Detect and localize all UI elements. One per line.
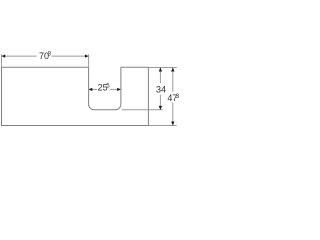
arrow bottom of 47.3 dimension: [171, 122, 174, 126]
dimension line 25.5 left segment: [89, 88, 98, 90]
extension line bottom right for 47.3 dimension: [148, 125, 176, 127]
dimension line 70.8 right segment: [52, 55, 89, 57]
svg-text:5: 5: [106, 83, 110, 90]
arrow top of 47.3 dimension: [171, 68, 174, 72]
dimension line 47.3 upper segment: [172, 68, 174, 92]
extension line at countertop left edge for 70.8 dimension: [1, 54, 3, 67]
dimension line 34 upper segment: [159, 68, 161, 84]
extension line top right for 34 and 47.3 dimensions: [148, 67, 176, 69]
arrow left of 70.8 dimension: [2, 54, 6, 57]
svg-text:3: 3: [176, 93, 180, 100]
dimension line 34 lower segment: [159, 95, 161, 110]
arrow right of 70.8 dimension: [85, 54, 89, 57]
extension line at cutout left edge for 70.8 dimension: [88, 54, 90, 67]
dimension line 47.3 lower segment: [172, 102, 174, 125]
countertop outline with basin cutout notch: [2, 67, 149, 125]
extension line at cutout bottom for 34 dimension: [122, 109, 163, 111]
dimension line 25.5 right segment: [110, 88, 121, 90]
dimension line 70.8 left segment: [2, 55, 37, 57]
svg-text:8: 8: [48, 50, 52, 57]
arrow left of 25.5 dimension: [89, 88, 93, 91]
arrow right of 25.5 dimension: [117, 88, 121, 91]
arrow bottom of 34 dimension: [159, 106, 162, 110]
svg-text:34: 34: [156, 84, 166, 94]
arrow top of 34 dimension: [159, 68, 162, 72]
